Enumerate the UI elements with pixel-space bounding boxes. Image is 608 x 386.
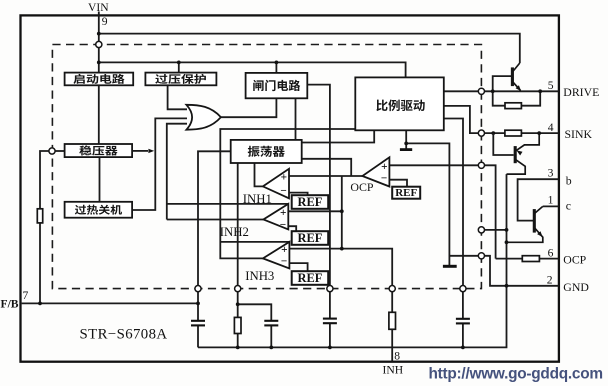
wire Q1 base network	[493, 76, 511, 91]
reference REF2	[292, 231, 329, 245]
svg-text:STR−S6708A: STR−S6708A	[80, 327, 168, 343]
resistor R4 feedback divider	[37, 209, 42, 223]
wire drop to gate box	[275, 62, 277, 73]
wire ocp bus up to oscillator	[302, 159, 352, 176]
resistor R6 inhibit	[389, 312, 396, 329]
svg-text:−: −	[280, 185, 286, 197]
wire circle to regulator	[55, 150, 65, 152]
comparator INH3 U4	[263, 242, 290, 269]
wire VIN rail lower segment	[99, 157, 101, 202]
svg-text:INH3: INH3	[245, 269, 274, 283]
capacitor C1 feedback	[191, 321, 205, 326]
svg-text:OCP: OCP	[350, 180, 374, 194]
block regulator	[65, 144, 133, 157]
capacitor C5	[456, 319, 470, 324]
wire VIN rail mid segment	[98, 85, 100, 144]
wire c pin	[543, 205, 559, 207]
svg-text:SINK: SINK	[565, 127, 593, 141]
junction GND node	[505, 284, 509, 288]
wire OR output to gate box	[221, 98, 277, 117]
wire V4 to INH2 plus	[288, 210, 342, 212]
wire OR lower input from INH2 bus	[167, 124, 187, 220]
transistor Q1 drive NPN	[512, 63, 520, 91]
svg-text:REF: REF	[298, 271, 323, 285]
junction bus node2	[236, 346, 240, 350]
junction bus cap2	[269, 346, 273, 350]
wire circle5 to gnd bar	[449, 255, 478, 257]
junction bus cap5	[461, 346, 465, 350]
wire INH2 minus to REF2	[288, 226, 296, 231]
node pin circle bottom4 INH	[389, 286, 395, 292]
svg-text:6: 6	[548, 247, 554, 260]
wire GND from circle5	[485, 256, 559, 286]
node1 cap to bus	[197, 326, 199, 347]
resistor R1 base-emitter	[505, 103, 521, 109]
svg-text:REF: REF	[298, 195, 323, 209]
node2 vertical upper	[237, 292, 239, 318]
OR gate U1	[186, 105, 221, 130]
node5 cap stub	[462, 292, 464, 348]
wire sink pin left	[485, 132, 505, 134]
transistor Q2 sink PNP	[507, 133, 540, 174]
node pin circle sink	[478, 130, 484, 136]
svg-text:INH2: INH2	[220, 225, 249, 239]
wire regulator output	[132, 150, 148, 152]
svg-text:INH: INH	[383, 364, 404, 377]
wire V4 to INH3 plus	[289, 248, 341, 250]
block oscillator	[231, 140, 302, 163]
wire regulator-thermal node to OR input	[132, 118, 187, 210]
node pin circle FB	[49, 148, 55, 154]
ground drive block	[400, 148, 412, 151]
wire VIN rail vertical	[98, 12, 100, 73]
wire overvoltage to OR input	[168, 85, 187, 109]
comparator INH2 U3	[263, 204, 288, 230]
svg-text:9: 9	[102, 15, 108, 28]
svg-text:GND: GND	[563, 280, 589, 294]
cap2 to bus	[270, 326, 272, 347]
wire drive out2 to circle2	[444, 106, 479, 133]
wire OCP pin to border	[539, 258, 558, 260]
wire circle3 right to OCP pin	[485, 165, 496, 258]
svg-text:5: 5	[548, 79, 554, 92]
block startup circuit	[65, 73, 134, 86]
wire oscillator top feed	[295, 98, 297, 140]
svg-text:INH1: INH1	[243, 192, 272, 206]
junction FB divider	[38, 302, 42, 306]
node pin circle drive	[478, 88, 484, 94]
node2 vertical lower	[237, 334, 239, 348]
wire second rail to drive block top	[99, 62, 406, 77]
block proportional drive	[355, 77, 444, 130]
resistor R3 ocp sense	[522, 256, 539, 262]
wire circle3 to ocp plus input	[389, 164, 478, 166]
node pin circle bottom3	[327, 286, 333, 292]
arrowhead Q1 emitter	[516, 85, 522, 91]
wire INH2 top vertex line	[167, 203, 288, 205]
arrowhead Q2 emitter	[517, 150, 523, 155]
wire top rail to Q1 collector	[99, 34, 520, 63]
svg-text:DRIVE: DRIVE	[563, 85, 599, 99]
svg-text:8: 8	[394, 349, 400, 362]
wire FB resistor chain	[39, 223, 41, 304]
svg-text:OCP: OCP	[563, 253, 586, 267]
node1 cap stub	[197, 289, 199, 321]
block overvoltage protection	[145, 73, 216, 86]
wire INH2 output bus	[167, 219, 264, 221]
junction bus cap3	[328, 346, 332, 350]
node pin circle VIN	[96, 41, 102, 47]
outer border frame	[21, 15, 559, 361]
wire V6 vertical	[506, 174, 508, 286]
junction V4 INH2	[340, 209, 344, 213]
wire V4 to INH pin circle	[342, 249, 392, 286]
wire OCP minus to REF4	[389, 180, 407, 187]
svg-text:1: 1	[548, 194, 554, 207]
wire ocp plus bus	[289, 175, 362, 177]
junction drive ground	[404, 142, 408, 146]
svg-text:+: +	[381, 161, 387, 173]
wire INH3 output to drive block	[220, 129, 355, 258]
wire oscillator bottom to pin node2	[237, 163, 239, 286]
node2 branch to cap2	[238, 304, 272, 320]
wire drive out3 down V5	[444, 119, 463, 286]
wire INH1 minus to REF1	[289, 193, 308, 196]
wire drive block to oscillator	[302, 130, 375, 142]
node3 vertical	[329, 292, 331, 348]
svg-text:b: b	[566, 174, 572, 188]
node4 resistor to INH pin 8	[391, 292, 393, 362]
wire FB resistor top to circle	[40, 151, 49, 209]
resistor R5 timing	[234, 317, 241, 333]
wire Q2 base network	[493, 133, 513, 155]
block gate circuit	[246, 73, 308, 98]
svg-text:http://www.go-gddq.com: http://www.go-gddq.com	[429, 365, 603, 382]
bottom bus	[198, 286, 507, 348]
junction sink right node	[537, 131, 541, 135]
reference REF4 for OCP	[392, 187, 420, 199]
wire OCP pin left segment	[496, 258, 523, 260]
comparator OCP U5	[362, 157, 389, 186]
IC package dashed boundary	[52, 45, 481, 289]
resistor R2 sink series	[505, 130, 522, 136]
svg-text:3: 3	[548, 166, 554, 179]
svg-text:REF: REF	[395, 187, 417, 199]
junction V6 emitter	[505, 240, 509, 244]
junction FB cap node	[196, 302, 200, 306]
svg-text:REF: REF	[298, 231, 323, 245]
wire drive ground to internal gnd	[406, 143, 449, 265]
wire drive pin	[485, 90, 559, 92]
label proportional drive	[376, 99, 424, 111]
wire INH3 top vertex line	[220, 241, 289, 243]
junction sink left node	[491, 131, 495, 135]
node pin circle ocp plus	[478, 162, 484, 168]
comparator INH1 U2	[263, 169, 289, 199]
svg-text:4: 4	[548, 121, 554, 134]
wire oscillator left to bottom pin V1	[198, 151, 232, 285]
wire INH3 minus to REF3	[289, 263, 307, 271]
junction VIN top rail	[97, 32, 101, 36]
junction V6 circle4	[505, 228, 509, 232]
svg-text:+: +	[281, 244, 287, 256]
wire sink pin right	[521, 132, 558, 134]
node pin circle ground	[478, 253, 484, 259]
wire FB pin	[22, 302, 198, 304]
junction V4 INH3	[340, 247, 344, 251]
svg-text:F/B: F/B	[1, 297, 19, 310]
wire gate box output down V3	[307, 85, 330, 286]
block thermal shutdown	[65, 202, 133, 218]
node pin circle bottom5	[460, 286, 466, 292]
svg-text:7: 7	[23, 289, 29, 302]
reference REF3	[292, 271, 329, 285]
junction gate feed	[275, 61, 279, 65]
wire circle4 to V6	[485, 229, 507, 231]
capacitor C3	[323, 319, 337, 324]
junction timing node	[236, 302, 240, 306]
wire drive block ground stub	[405, 130, 407, 149]
junction Q1 base node	[491, 89, 495, 93]
junction VIN second rail	[97, 61, 101, 65]
reference REF1	[292, 195, 329, 209]
svg-text:2: 2	[547, 273, 553, 286]
svg-text:c: c	[566, 199, 571, 213]
svg-text:+: +	[281, 172, 287, 184]
node pin circle collector sense	[478, 227, 484, 233]
arrowhead regulator output	[148, 149, 154, 153]
ground internal	[443, 265, 457, 268]
node pin circle bottom2	[235, 286, 241, 292]
node pin circle bottom1	[195, 286, 201, 292]
transistor Q3 output NPN	[507, 206, 543, 242]
wire oscillator to INH1 apex	[255, 163, 263, 186]
wire drop to overvoltage box	[178, 62, 180, 72]
wire b pin	[518, 179, 559, 220]
svg-text:−: −	[281, 256, 287, 268]
wire ocp bus down V4	[341, 176, 343, 249]
junction overvoltage feed	[177, 61, 181, 65]
capacitor C2 timing	[264, 321, 278, 326]
junction drive emitter node	[538, 89, 542, 93]
svg-text:−: −	[280, 219, 286, 231]
wire Q1 resistor loop	[493, 91, 541, 105]
arrowhead Q3 emitter	[537, 231, 543, 237]
wire drive out1 to circle1	[444, 90, 479, 92]
svg-text:+: +	[280, 207, 286, 219]
svg-text:−: −	[381, 172, 387, 184]
